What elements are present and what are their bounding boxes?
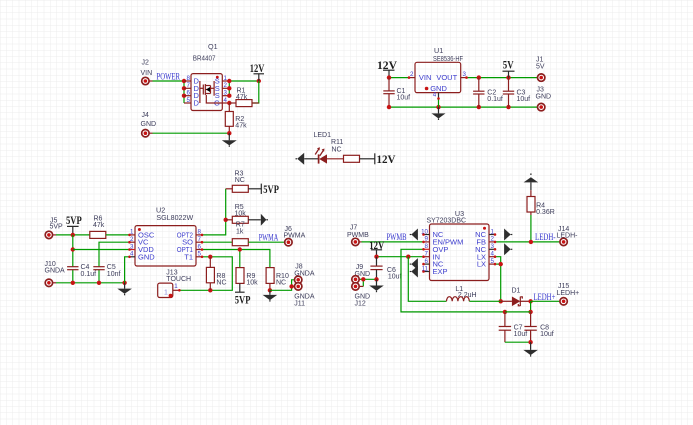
- capacitor C7 10uf: [499, 312, 528, 342]
- svg-text:R11: R11: [331, 139, 343, 146]
- power flag 5VP at R3: [261, 182, 279, 196]
- ground below R10: [263, 290, 278, 301]
- ground below U1: [432, 107, 446, 120]
- wire R4 to FB row and J14: [495, 215, 560, 244]
- svg-text:8: 8: [425, 243, 429, 250]
- svg-text:NC: NC: [235, 177, 245, 184]
- ground below R2: [222, 133, 237, 147]
- svg-text:5V: 5V: [503, 58, 514, 72]
- capacitor C3 10uf: [503, 78, 530, 108]
- wire R6 to U2 OSC: [106, 234, 130, 236]
- svg-text:4: 4: [224, 97, 228, 104]
- svg-text:7: 7: [425, 251, 429, 258]
- wire OPT1 row to R9/R10: [202, 247, 270, 267]
- resistor R1 47k: [229, 88, 258, 107]
- svg-text:10uf: 10uf: [540, 331, 554, 338]
- svg-text:T1: T1: [184, 252, 193, 261]
- wire C7 to C8 bottom: [505, 340, 533, 344]
- wire GNDA rail: [56, 281, 127, 285]
- svg-text:D: D: [194, 99, 200, 108]
- svg-text:LED1: LED1: [314, 132, 332, 139]
- wire SO row to R7: [202, 241, 232, 243]
- ground below U2: [117, 283, 132, 296]
- svg-text:1: 1: [174, 283, 178, 290]
- svg-text:LEDH-: LEDH-: [557, 233, 579, 240]
- wire R7 to J6: [248, 241, 284, 243]
- nc ground flag pin6: [410, 258, 418, 270]
- wire 12V to U1 VIN: [387, 75, 409, 79]
- connector J11 GNDA: [294, 283, 315, 308]
- svg-text:12V: 12V: [377, 152, 396, 166]
- svg-text:3: 3: [224, 90, 228, 97]
- svg-text:J3: J3: [537, 86, 545, 93]
- regulator U1 SE8536-HF: [409, 46, 467, 99]
- LED LED1: [314, 132, 332, 163]
- wire VC row to C5: [99, 242, 130, 283]
- svg-text:LEDH+: LEDH+: [534, 292, 556, 302]
- ground below C6: [369, 279, 384, 292]
- svg-text:LEDH-: LEDH-: [535, 232, 556, 242]
- resistor R4 0.36R: [527, 190, 555, 216]
- connector J14 LEDH-: [557, 226, 579, 246]
- svg-text:VIN: VIN: [141, 70, 153, 77]
- svg-text:9: 9: [425, 236, 429, 243]
- wire D1 to J15: [528, 299, 560, 303]
- svg-text:2: 2: [410, 71, 414, 78]
- svg-text:POWER: POWER: [157, 72, 181, 82]
- svg-text:10nf: 10nf: [107, 271, 121, 278]
- wire PWMB to U3 EN: [362, 241, 424, 243]
- nc ground flag pin1: [504, 229, 512, 241]
- nc ground flag pin10: [410, 229, 418, 241]
- svg-text:6: 6: [187, 90, 191, 97]
- wire 5VP row to R6: [56, 233, 90, 237]
- connector J10 GNDA: [45, 261, 66, 287]
- svg-text:5VP: 5VP: [66, 213, 82, 227]
- capacitor C5 10nf: [93, 264, 120, 278]
- svg-text:2: 2: [224, 82, 228, 89]
- capacitor C4 0.1uf: [67, 264, 96, 278]
- svg-text:0.1uf: 0.1uf: [487, 96, 503, 103]
- wire LED1 to R11: [327, 158, 344, 160]
- svg-text:6: 6: [425, 258, 429, 265]
- inductor L1 2.2uH: [447, 286, 477, 301]
- wire LX pins to L1 node: [495, 257, 503, 304]
- svg-text:SE8536-HF: SE8536-HF: [433, 54, 463, 63]
- connector J7 PWMB: [347, 224, 369, 245]
- svg-text:SGL8022W: SGL8022W: [156, 213, 193, 222]
- svg-text:GND: GND: [536, 94, 552, 101]
- power flag 5VP at J5: [66, 213, 82, 235]
- svg-text:47k: 47k: [235, 122, 247, 129]
- connector J5 5VP: [45, 217, 63, 238]
- power flag 12V at U3: [369, 238, 384, 257]
- svg-text:7: 7: [187, 82, 191, 89]
- svg-text:LX: LX: [477, 260, 486, 269]
- wire IN row 12V: [374, 255, 423, 259]
- svg-text:5VP: 5VP: [235, 293, 251, 307]
- svg-text:10uf: 10uf: [388, 273, 402, 280]
- svg-text:GND: GND: [138, 252, 155, 261]
- wire GND net J4 to R2: [153, 131, 232, 135]
- wire U1 VOUT to J1: [467, 75, 538, 79]
- wire T1 row to touch pad: [179, 255, 232, 293]
- resistor R8 NC: [206, 257, 226, 291]
- power flag 5VP below R9: [235, 292, 251, 306]
- power flag 12V at Q1: [250, 61, 265, 81]
- svg-text:LEDH+: LEDH+: [557, 290, 580, 297]
- svg-text:5: 5: [187, 97, 191, 104]
- svg-text:4: 4: [433, 92, 437, 99]
- wire U2 GND pin to rail: [125, 257, 130, 283]
- wire R10 to J8/J11: [268, 280, 295, 293]
- svg-text:10uf: 10uf: [514, 331, 528, 338]
- resistor R3 NC: [226, 171, 262, 193]
- svg-text:J1: J1: [536, 57, 544, 64]
- power flag 12V at U1: [377, 58, 397, 77]
- wire L1 to D1: [469, 300, 500, 302]
- wire OVP down to output rail: [401, 249, 505, 312]
- svg-text:10uf: 10uf: [397, 95, 411, 102]
- svg-text:EXP: EXP: [433, 267, 448, 276]
- power flag 5V: [503, 58, 515, 78]
- svg-text:1k: 1k: [236, 228, 244, 235]
- svg-text:47k: 47k: [93, 222, 105, 229]
- diode D1: [501, 287, 531, 306]
- connector J1 5V: [536, 57, 545, 82]
- resistor R5 10k: [226, 204, 261, 223]
- svg-text:PWMB: PWMB: [387, 232, 407, 242]
- connector J8 GNDA: [294, 264, 315, 284]
- connector J12 GND: [352, 283, 370, 308]
- svg-text:TOUCH: TOUCH: [166, 276, 191, 283]
- ground flag above R4: [524, 173, 539, 190]
- svg-text:PWMB: PWMB: [347, 232, 369, 239]
- connector J3 GND: [536, 86, 552, 111]
- svg-text:GNDA: GNDA: [45, 267, 66, 274]
- svg-text:J12: J12: [355, 300, 366, 307]
- svg-text:5VP: 5VP: [263, 182, 279, 196]
- svg-text:12V: 12V: [250, 61, 265, 75]
- svg-text:10uf: 10uf: [517, 96, 531, 103]
- capacitor C8 10uf: [524, 312, 553, 342]
- capacitor C2 0.1uf: [473, 78, 503, 108]
- ground flag left of LED1: [296, 153, 319, 165]
- wire VDD row: [73, 249, 130, 251]
- IC U3 SY7203DBC: [421, 209, 495, 281]
- wire VIN net J2 to Q1 drains: [153, 79, 187, 103]
- svg-text:NC: NC: [276, 280, 286, 287]
- capacitor C1 10uf: [383, 78, 410, 108]
- wire OPT2 to R3/R5: [202, 189, 228, 235]
- wire J9/J12 to C6 ground node: [359, 277, 379, 286]
- svg-text:J2: J2: [142, 60, 150, 67]
- connector J9 GND: [352, 264, 370, 283]
- ground flag right of R5: [261, 214, 268, 226]
- touch pad J13 TOUCH: [158, 270, 191, 298]
- svg-text:J4: J4: [142, 112, 150, 119]
- wire Q1 gate node: [227, 81, 259, 105]
- svg-text:VIN: VIN: [419, 73, 432, 82]
- resistor R6 47k: [90, 215, 106, 238]
- ground below C8: [523, 342, 538, 356]
- resistor R10 NC: [266, 268, 289, 291]
- wire IN node down to L1: [408, 257, 446, 302]
- svg-text:PWMA: PWMA: [259, 233, 279, 243]
- resistor R11 NC: [331, 139, 360, 162]
- nc ground flag pin11 EXP: [410, 266, 418, 278]
- connector J4 GND: [141, 112, 157, 137]
- svg-text:D1: D1: [512, 287, 521, 294]
- svg-text:2.2uH: 2.2uH: [458, 292, 477, 299]
- wire 5VP vertical through C4 to GNDA rail: [71, 235, 75, 283]
- connector J15 LEDH+: [557, 283, 580, 305]
- svg-text:VOUT: VOUT: [436, 73, 457, 82]
- wire D1 node down to output rail: [503, 301, 533, 314]
- svg-text:NC: NC: [216, 279, 226, 286]
- connector J2 VIN: [141, 60, 153, 85]
- power flag 12V at LED: [375, 152, 396, 166]
- pin tip dots: [128, 76, 496, 291]
- connector J6 PWMA: [284, 226, 306, 246]
- svg-text:5VP: 5VP: [50, 224, 64, 231]
- svg-text:SY7203DBC: SY7203DBC: [427, 216, 467, 225]
- svg-text:Q1: Q1: [208, 42, 218, 51]
- transistor Q1 BR4407: [184, 42, 229, 111]
- IC U2 SGL8022W: [130, 206, 203, 266]
- svg-text:0.36R: 0.36R: [536, 209, 555, 216]
- resistor R9 10k: [236, 268, 258, 293]
- svg-text:GND: GND: [355, 293, 371, 300]
- svg-text:5V: 5V: [536, 64, 545, 71]
- svg-text:NC: NC: [332, 146, 342, 153]
- svg-text:0.1uf: 0.1uf: [81, 271, 97, 278]
- capacitor C6 10uf: [370, 257, 401, 281]
- svg-text:10k: 10k: [246, 280, 258, 287]
- resistor R2 47k: [225, 103, 247, 133]
- nc ground flag pin3: [504, 243, 512, 255]
- svg-text:1: 1: [164, 290, 168, 297]
- svg-text:1: 1: [224, 75, 228, 82]
- svg-text:GND: GND: [141, 121, 157, 128]
- wire R11 to 12V flag: [360, 158, 375, 160]
- svg-text:J7: J7: [350, 224, 358, 231]
- svg-text:BR4407: BR4407: [193, 54, 216, 63]
- resistor R7 1k: [232, 222, 248, 246]
- wire U1 GND pin: [438, 99, 440, 108]
- svg-text:8: 8: [187, 75, 191, 82]
- wire Q1 sources to 12V: [227, 79, 261, 98]
- wire GND rail U1 section: [387, 105, 538, 109]
- svg-text:J11: J11: [294, 300, 305, 307]
